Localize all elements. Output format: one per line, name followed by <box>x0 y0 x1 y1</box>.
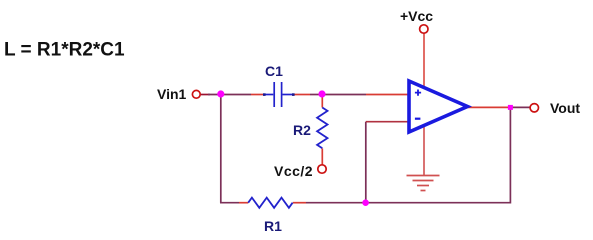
terminal Vin1 <box>192 90 200 98</box>
resistor R2 <box>317 108 327 149</box>
wire: main horizontal Vin1 to C1 <box>201 94 210 96</box>
svg-text:Vcc/2: Vcc/2 <box>274 163 313 179</box>
node D junction (bottom) <box>362 199 369 206</box>
wire: op-amp ground vertical (red) <box>423 126 425 176</box>
terminal Vout <box>530 104 538 112</box>
op-amp + symbol <box>415 90 421 96</box>
wire: feedback vertical up from node D <box>365 122 367 203</box>
ground <box>407 176 440 191</box>
svg-text:R1: R1 <box>264 218 282 234</box>
node C junction (output) <box>508 105 513 110</box>
wire: bottom horizontal R1 to right corner <box>306 202 510 204</box>
wire: +Vcc vertical (red) <box>423 34 425 87</box>
wire: C1 to node B <box>310 94 322 96</box>
wire: bottom left horizontal to R1 <box>220 202 239 204</box>
wire: op-amp output (red) <box>468 106 509 108</box>
svg-text:L = R1*R2*C1: L = R1*R2*C1 <box>4 40 125 61</box>
wire: right vertical output down <box>509 107 511 203</box>
wire: node B to op-amp + pin <box>322 94 366 96</box>
resistor R1 <box>248 198 292 208</box>
node A junction <box>217 90 224 97</box>
op-amp - symbol <box>415 118 421 120</box>
op-amp U1 <box>409 81 468 132</box>
wire: output node to Vout terminal <box>512 106 530 108</box>
svg-text:C1: C1 <box>265 63 283 79</box>
capacitor C1 <box>264 82 294 107</box>
svg-text:Vout: Vout <box>550 100 580 116</box>
terminal Vcc/2 <box>318 165 326 173</box>
wire: C1 left pin (red) <box>251 94 264 96</box>
wire: left vertical from node A down <box>220 95 222 203</box>
wire: R1 right pin (red) <box>293 202 306 204</box>
terminal +Vcc <box>420 25 428 33</box>
node B junction <box>318 90 325 97</box>
wire: R2 top pin (red) <box>321 96 323 108</box>
wire: C1 right pin (red) <box>294 94 310 96</box>
svg-text:Vin1: Vin1 <box>157 86 187 102</box>
svg-text:R2: R2 <box>293 122 311 138</box>
wire: op-amp - input horizontal (red) <box>366 121 409 123</box>
wire: R2 bottom pin (red) <box>321 148 323 164</box>
wire: op-amp + input pin (red) <box>366 94 409 96</box>
svg-text:+Vcc: +Vcc <box>400 8 433 24</box>
wire: R1 left pin (red) <box>239 202 248 204</box>
